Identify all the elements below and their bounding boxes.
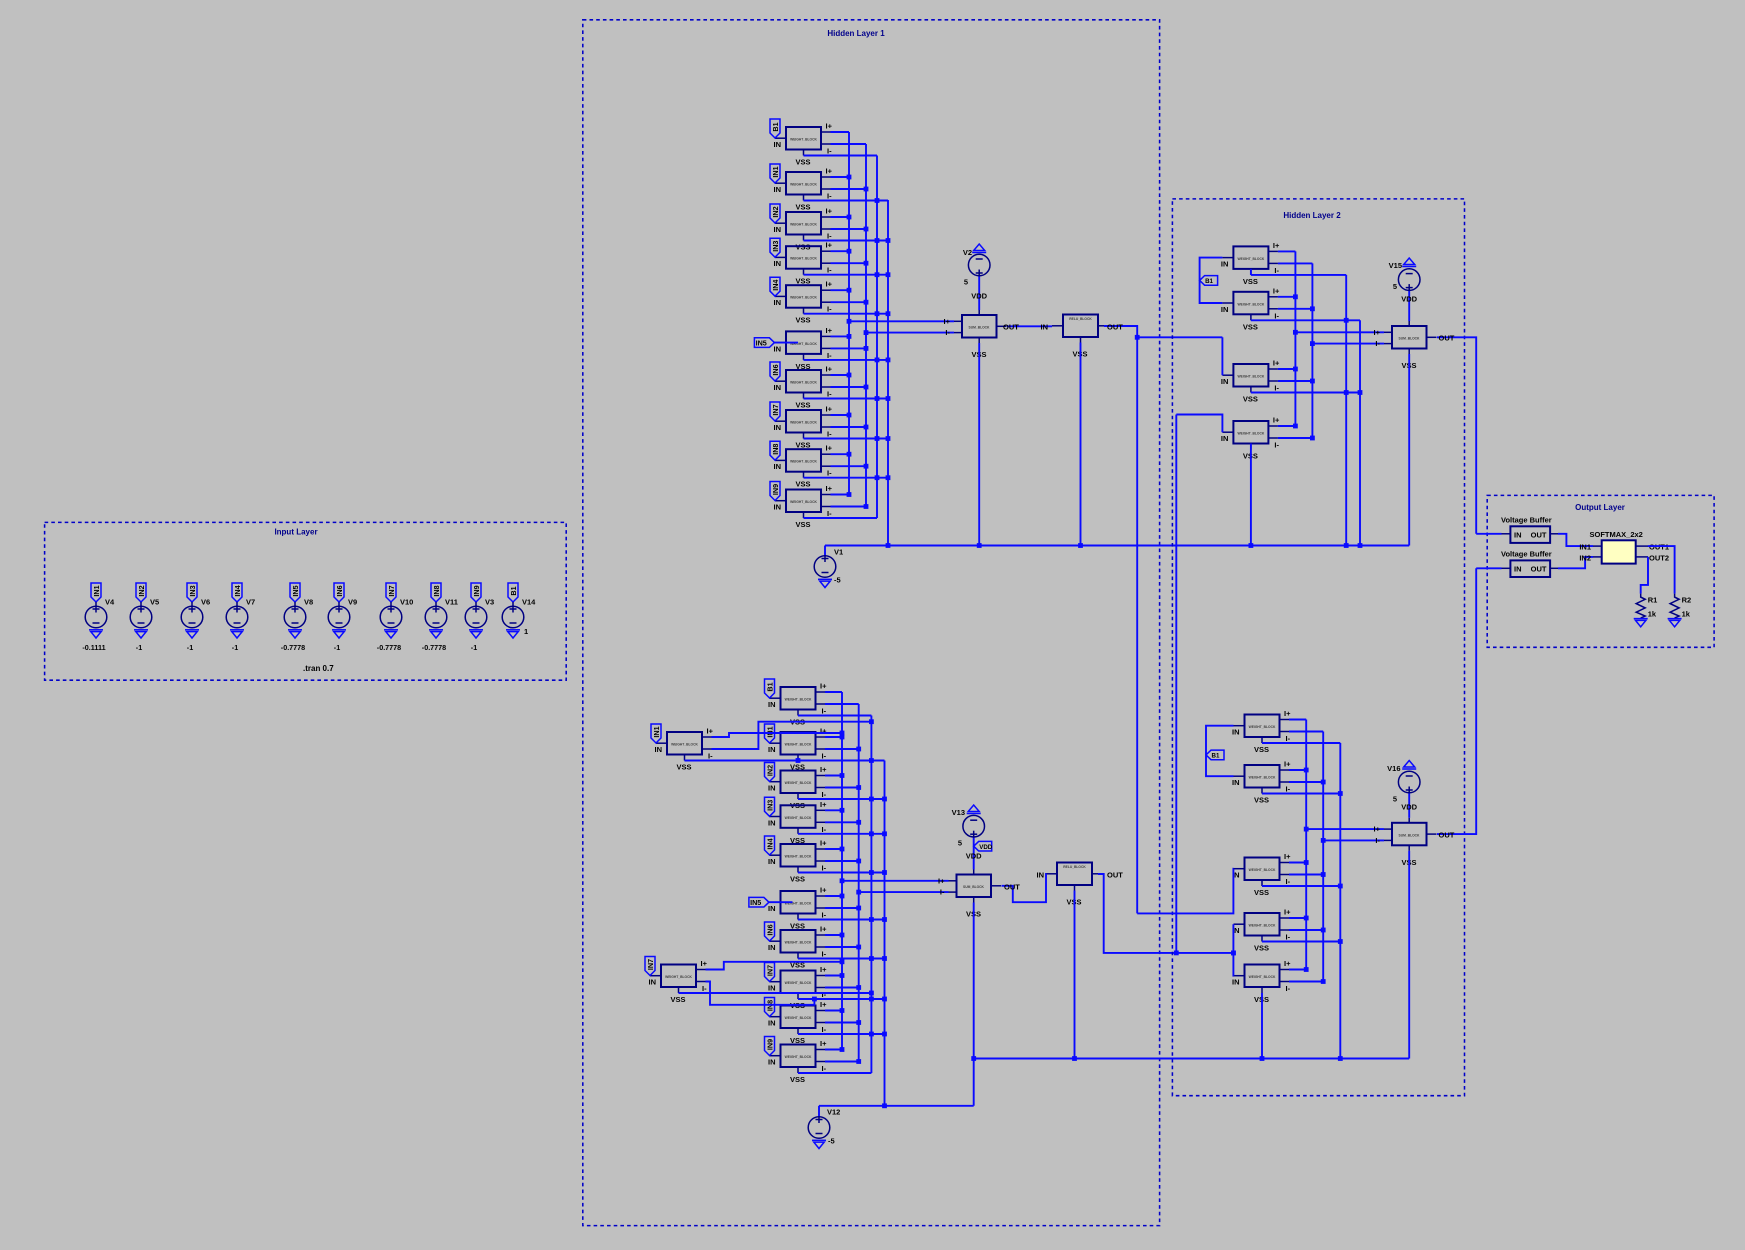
svg-text:I-: I- — [827, 469, 832, 478]
VSS bus wire B — [884, 761, 886, 1106]
svg-text:I+: I+ — [707, 727, 714, 736]
svg-text:I-: I- — [822, 864, 827, 873]
svg-text:V2: V2 — [963, 248, 972, 257]
wire I+ bus to sum — [1306, 828, 1384, 830]
ground — [230, 630, 244, 638]
junction — [886, 272, 891, 277]
svg-text:I+: I+ — [826, 241, 833, 250]
wire — [774, 342, 798, 344]
svg-text:VDD: VDD — [971, 292, 987, 301]
svg-text:WEIGHT_BLOCK: WEIGHT_BLOCK — [1249, 924, 1276, 928]
VSS bus wire — [1339, 743, 1341, 1059]
wire I+ — [825, 736, 842, 738]
wire I- — [1278, 380, 1313, 382]
wire I- — [831, 188, 867, 190]
svg-text:IN: IN — [649, 978, 657, 987]
svg-text:VSS: VSS — [1243, 322, 1258, 331]
junction — [856, 785, 861, 790]
junction — [882, 870, 887, 875]
wire VSS — [804, 240, 889, 242]
junction — [840, 959, 845, 964]
wire I- — [825, 703, 859, 705]
wire I+ — [1289, 917, 1306, 919]
svg-text:OUT: OUT — [1439, 334, 1455, 343]
wire LB1 I+ — [712, 733, 843, 737]
svg-text:I-: I- — [827, 305, 832, 314]
wire flag to V11 — [435, 602, 437, 606]
svg-text:IN: IN — [1037, 871, 1045, 880]
junction — [875, 436, 880, 441]
svg-text:IN: IN — [1514, 564, 1522, 573]
svg-text:I-: I- — [827, 390, 832, 399]
wire I+ — [1278, 296, 1296, 298]
wire I+ — [831, 250, 850, 252]
voltage source V10 — [380, 606, 402, 628]
junction — [1321, 872, 1326, 877]
weight block LB2 — [649, 959, 708, 1004]
svg-text:IN: IN — [768, 904, 776, 913]
power flag — [972, 244, 986, 253]
power flag — [1402, 258, 1416, 267]
svg-text:WEIGHT_BLOCK: WEIGHT_BLOCK — [1238, 432, 1265, 436]
wire I- — [825, 787, 859, 789]
svg-text:1k: 1k — [1648, 610, 1657, 619]
svg-text:I+: I+ — [1273, 241, 1280, 250]
weight block IN5 — [768, 886, 827, 931]
svg-text:-0.7778: -0.7778 — [281, 643, 305, 652]
svg-text:Hidden Layer 2: Hidden Layer 2 — [1283, 211, 1341, 220]
wire relu1 feed to block3 — [1221, 337, 1223, 375]
svg-text:VSS: VSS — [795, 316, 810, 325]
junction — [869, 758, 874, 763]
wire VSS — [804, 200, 889, 202]
svg-text:SUM_BLOCK: SUM_BLOCK — [1399, 337, 1420, 341]
weight block W3 — [1221, 416, 1280, 461]
weight block W2 — [1232, 852, 1291, 897]
svg-text:B1: B1 — [771, 122, 780, 131]
svg-text:IN3: IN3 — [765, 800, 774, 811]
junction — [869, 997, 874, 1002]
svg-text:IN: IN — [1221, 259, 1229, 268]
svg-text:-1: -1 — [136, 643, 142, 652]
svg-text:WEIGHT_BLOCK: WEIGHT_BLOCK — [1249, 868, 1276, 872]
svg-text:I+: I+ — [826, 405, 833, 414]
svg-text:OUT: OUT — [1107, 871, 1123, 880]
net flag IN8 — [765, 998, 775, 1017]
svg-text:-1: -1 — [471, 643, 477, 652]
weight block W1 — [1232, 760, 1291, 805]
svg-text:RELU_BLOCK: RELU_BLOCK — [1069, 317, 1092, 321]
svg-text:WEIGHT_BLOCK: WEIGHT_BLOCK — [785, 743, 812, 747]
svg-text:-5: -5 — [834, 576, 841, 585]
weight block IN4 — [768, 839, 827, 884]
weight block W3 — [1232, 908, 1291, 953]
wire flag to V14 — [512, 602, 514, 606]
svg-text:I-: I- — [822, 1064, 827, 1073]
wire I+ — [825, 809, 842, 811]
wire I+ — [825, 975, 842, 977]
ground — [134, 630, 148, 638]
sum block U1 — [954, 310, 1007, 359]
svg-text:IN1: IN1 — [92, 585, 101, 596]
net flag IN6 — [334, 583, 344, 602]
wire VSS — [798, 919, 885, 921]
svg-text:1k: 1k — [1682, 610, 1691, 619]
wire flag to V5 — [140, 602, 142, 606]
wire I+ — [1289, 969, 1306, 971]
svg-text:V10: V10 — [400, 598, 413, 607]
svg-text:I+: I+ — [820, 965, 827, 974]
ground — [1634, 619, 1648, 627]
svg-text:SUM_BLOCK: SUM_BLOCK — [969, 326, 990, 330]
net flag IN4 — [770, 277, 780, 296]
svg-text:VSS: VSS — [795, 480, 810, 489]
junction — [812, 997, 817, 1002]
svg-text:VSS: VSS — [795, 520, 810, 529]
wire LB2 I+ — [706, 962, 843, 970]
svg-text:V15: V15 — [1389, 261, 1402, 270]
ground — [185, 630, 199, 638]
wire out2 to R1 — [1641, 557, 1648, 594]
svg-text:VSS: VSS — [1243, 277, 1258, 286]
weight block IN1 — [768, 727, 827, 772]
junction — [840, 731, 845, 736]
wire LB2 VSS — [679, 992, 872, 994]
weight block IN9 — [768, 1039, 827, 1084]
svg-text:SUM_BLOCK: SUM_BLOCK — [1399, 833, 1420, 837]
svg-text:VSS: VSS — [1254, 796, 1269, 805]
junction — [847, 334, 852, 339]
junction — [1310, 379, 1315, 384]
junction — [856, 985, 861, 990]
I+ bus wire — [1294, 251, 1296, 426]
weight block W0 — [1232, 709, 1291, 754]
wire I- — [825, 821, 859, 823]
voltage source V8 — [284, 606, 306, 628]
junction — [840, 773, 845, 778]
wire I- — [831, 143, 867, 145]
softmax block U9 — [1593, 540, 1648, 563]
junction — [869, 831, 874, 836]
voltage source V15 wire — [1408, 291, 1410, 322]
wire I+ — [1289, 862, 1306, 864]
wire VSS — [798, 833, 885, 835]
VSS rail wire bottom — [819, 1105, 974, 1107]
voltage source V2 wire — [978, 276, 980, 310]
voltage source V6 — [181, 606, 203, 628]
svg-text:VSS: VSS — [1254, 888, 1269, 897]
wire LB1 I- — [712, 722, 872, 749]
wire I+ — [825, 775, 842, 777]
net flag IN8 — [431, 583, 441, 602]
resistor R2 1k — [1670, 594, 1691, 619]
wire I- — [825, 987, 859, 989]
I- bus wire — [1311, 263, 1313, 438]
wire VSS b4 — [1262, 941, 1340, 943]
svg-text:WEIGHT_BLOCK: WEIGHT_BLOCK — [1249, 975, 1276, 979]
svg-text:IN: IN — [655, 745, 663, 754]
wire sum2 VSS — [973, 903, 975, 1106]
svg-text:IN3: IN3 — [771, 241, 780, 252]
net flag IN2 — [765, 763, 775, 782]
svg-text:IN6: IN6 — [765, 924, 774, 935]
weight block IN7 — [768, 965, 827, 1010]
junction — [847, 288, 852, 293]
net flag IN1 — [770, 164, 780, 183]
I- bus wire — [1322, 732, 1324, 982]
wire I+ — [831, 289, 850, 291]
junction — [1293, 367, 1298, 372]
svg-text:5: 5 — [958, 839, 962, 848]
svg-text:I-: I- — [1274, 266, 1279, 275]
svg-text:5: 5 — [1393, 282, 1397, 291]
net flag B1 — [1206, 750, 1224, 760]
junction — [1304, 916, 1309, 921]
I+ bus wire — [848, 132, 850, 495]
wire I- — [825, 946, 859, 948]
svg-text:IN7: IN7 — [387, 585, 396, 596]
svg-text:R2: R2 — [1682, 596, 1692, 605]
junction — [856, 890, 861, 895]
net flag IN5 — [749, 897, 769, 907]
svg-text:IN: IN — [1232, 778, 1240, 787]
svg-text:I+: I+ — [820, 839, 827, 848]
wire VSS b4 down — [1250, 444, 1252, 546]
wire I+ — [831, 494, 850, 496]
svg-text:OUT: OUT — [1003, 323, 1019, 332]
svg-text:V11: V11 — [445, 598, 458, 607]
svg-text:V16: V16 — [1387, 764, 1400, 773]
net flag IN1 — [765, 724, 775, 743]
junction — [840, 847, 845, 852]
svg-text:5: 5 — [964, 278, 968, 287]
svg-text:V12: V12 — [827, 1108, 840, 1117]
wire I- — [831, 465, 867, 467]
svg-text:IN6: IN6 — [771, 364, 780, 375]
wire I- — [825, 860, 859, 862]
net flag IN4 — [232, 583, 242, 602]
I+ bus wire — [1305, 720, 1307, 970]
svg-text:WEIGHT_BLOCK: WEIGHT_BLOCK — [1238, 302, 1265, 306]
junction — [1338, 1056, 1343, 1061]
wire relu2 out — [1098, 874, 1233, 953]
svg-text:-0.7778: -0.7778 — [422, 643, 446, 652]
svg-text:IN: IN — [1221, 434, 1229, 443]
svg-text:I+: I+ — [826, 444, 833, 453]
ground — [89, 630, 103, 638]
svg-text:OUT: OUT — [1531, 564, 1547, 573]
ground — [384, 630, 398, 638]
svg-text:V5: V5 — [150, 598, 159, 607]
svg-text:V14: V14 — [522, 598, 536, 607]
svg-text:IN: IN — [768, 818, 776, 827]
wire VSS b3 — [1262, 885, 1340, 887]
junction — [875, 475, 880, 480]
svg-text:I+: I+ — [1284, 852, 1291, 861]
ground — [506, 630, 520, 638]
svg-text:IN: IN — [1232, 978, 1240, 987]
wire I+ — [825, 934, 842, 936]
junction — [869, 917, 874, 922]
svg-text:WEIGHT_BLOCK: WEIGHT_BLOCK — [1238, 375, 1265, 379]
wire I- — [831, 228, 867, 230]
svg-text:R1: R1 — [1648, 596, 1658, 605]
wire flag to V4 — [95, 602, 97, 606]
svg-text:IN8: IN8 — [432, 585, 441, 596]
svg-text:Output Layer: Output Layer — [1575, 503, 1625, 512]
wire I+ — [1278, 425, 1296, 427]
wire I+ — [831, 414, 850, 416]
wire relu1 VSS — [1080, 343, 1082, 546]
svg-text:VDD: VDD — [966, 852, 982, 861]
svg-text:IN9: IN9 — [765, 1039, 774, 1050]
junction — [869, 719, 874, 724]
wire VSS b2 — [1251, 319, 1360, 321]
junction — [869, 870, 874, 875]
svg-text:V8: V8 — [304, 598, 313, 607]
svg-text:I-: I- — [1286, 984, 1291, 993]
svg-text:I+: I+ — [1284, 959, 1291, 968]
net flag IN8 — [770, 441, 780, 460]
junction — [1358, 543, 1363, 548]
wire LB1 VSS — [685, 760, 799, 762]
svg-text:I+: I+ — [826, 122, 833, 131]
junction — [886, 311, 891, 316]
wire I- — [831, 506, 867, 508]
sum block U6 — [1384, 818, 1437, 867]
junction — [1304, 967, 1309, 972]
junction — [882, 831, 887, 836]
wire I- — [831, 347, 867, 349]
svg-text:WEIGHT_BLOCK: WEIGHT_BLOCK — [671, 743, 698, 747]
svg-text:IN: IN — [1221, 305, 1229, 314]
svg-text:IN8: IN8 — [771, 444, 780, 455]
junction — [856, 906, 861, 911]
svg-text:I-: I- — [945, 328, 950, 337]
voltage source V1 — [814, 555, 836, 577]
svg-text:VSS: VSS — [790, 875, 805, 884]
svg-text:IN7: IN7 — [771, 404, 780, 415]
svg-text:IN: IN — [774, 462, 782, 471]
junction — [1249, 543, 1254, 548]
junction — [847, 452, 852, 457]
svg-text:OUT: OUT — [1439, 831, 1455, 840]
wire I+ — [831, 374, 850, 376]
weight block LB1 — [655, 727, 714, 772]
wire VSS — [798, 760, 885, 762]
net flag IN3 — [770, 238, 780, 257]
junction — [864, 227, 869, 232]
junction — [856, 945, 861, 950]
junction — [1321, 780, 1326, 785]
net flag IN1 — [651, 724, 661, 743]
svg-text:V4: V4 — [105, 598, 115, 607]
wire B1 net — [1200, 258, 1223, 303]
junction — [869, 1032, 874, 1037]
junction — [856, 820, 861, 825]
svg-text:IN1: IN1 — [771, 166, 780, 177]
wire I+ — [825, 848, 842, 850]
wire VSS b3 — [1251, 392, 1360, 394]
wire I+ — [825, 1049, 842, 1051]
junction — [882, 797, 887, 802]
net flag IN9 — [471, 583, 481, 602]
wire relu2 riser — [1175, 415, 1177, 953]
weight block IN8 — [768, 1000, 827, 1045]
junction — [856, 859, 861, 864]
svg-text:I+: I+ — [820, 1039, 827, 1048]
net flag IN1 — [91, 583, 101, 602]
svg-text:IN: IN — [774, 185, 782, 194]
svg-text:IN: IN — [774, 503, 782, 512]
junction — [840, 933, 845, 938]
I- bus wire — [865, 144, 867, 507]
junction — [840, 808, 845, 813]
svg-text:I+: I+ — [826, 326, 833, 335]
junction — [864, 330, 869, 335]
svg-text:I+: I+ — [820, 800, 827, 809]
VSS rail wire hl2 bottom — [974, 1058, 1409, 1060]
svg-text:V13: V13 — [952, 808, 965, 817]
svg-text:I-: I- — [827, 351, 832, 360]
wire I+ — [1289, 719, 1306, 721]
wire VSS — [798, 958, 885, 960]
wire I- — [831, 426, 867, 428]
svg-text:IN: IN — [1221, 377, 1229, 386]
svg-text:WEIGHT_BLOCK: WEIGHT_BLOCK — [790, 138, 817, 142]
wire buffer2 in — [1476, 567, 1501, 569]
svg-text:VSS: VSS — [1254, 745, 1269, 754]
junction — [882, 917, 887, 922]
svg-text:I-: I- — [822, 950, 827, 959]
junction — [1293, 330, 1298, 335]
svg-text:I+: I+ — [701, 959, 708, 968]
wire flag to V10 — [390, 602, 392, 606]
wire relu1 feed to block3 — [1137, 869, 1233, 914]
wire relu2 feed to block4 — [1176, 415, 1222, 433]
junction — [847, 373, 852, 378]
net flag IN6 — [765, 922, 775, 941]
wire I- — [1289, 929, 1323, 931]
ground — [469, 630, 483, 638]
svg-text:V1: V1 — [834, 548, 843, 557]
svg-text:WEIGHT_BLOCK: WEIGHT_BLOCK — [1238, 257, 1265, 261]
junction — [856, 1020, 861, 1025]
svg-text:I-: I- — [827, 192, 832, 201]
wire VSS b1 — [1250, 269, 1252, 275]
wire I+ bus to sum — [849, 320, 954, 322]
wire I- bus to sum — [1312, 343, 1384, 345]
wire I- bus to sum — [866, 332, 954, 334]
ground — [332, 630, 346, 638]
svg-text:SUM_BLOCK: SUM_BLOCK — [963, 885, 984, 889]
junction — [1344, 390, 1349, 395]
svg-text:V9: V9 — [348, 598, 357, 607]
svg-text:B1: B1 — [509, 586, 518, 595]
voltage source V7 — [226, 606, 248, 628]
net flag IN4 — [765, 836, 775, 855]
wire B1 net — [1206, 726, 1234, 777]
svg-text:IN2: IN2 — [771, 206, 780, 217]
junction — [869, 991, 874, 996]
wire I- — [1289, 731, 1323, 733]
wire buffer2 out to softmax — [1558, 557, 1593, 568]
wire I+ — [1289, 769, 1306, 771]
svg-text:IN1: IN1 — [1579, 543, 1591, 552]
junction — [1231, 951, 1236, 956]
net flag B1 — [1200, 276, 1218, 286]
net flag B1 — [508, 583, 518, 602]
